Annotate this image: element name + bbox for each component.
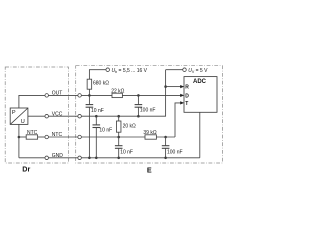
sensor block Dr dash-dot border	[5, 67, 68, 163]
wire VCC gap	[49, 115, 78, 117]
wire VCC from transducer	[28, 115, 45, 117]
capacitor 10 nF C1	[88, 95, 90, 104]
node NTC junction	[18, 136, 21, 139]
capacitor 10 nF C2	[95, 115, 98, 118]
resistor NTC	[26, 135, 37, 139]
svg-text:GND: GND	[52, 153, 64, 159]
node Ub supply terminal	[89, 70, 106, 80]
wire transducer bottom down to GND row	[18, 124, 20, 157]
svg-text:100 nF: 100 nF	[140, 108, 156, 114]
svg-text:39 kΩ: 39 kΩ	[143, 130, 156, 136]
wire GND gap	[49, 157, 78, 159]
wire 39k to T corner	[156, 136, 175, 138]
svg-text:10 nF: 10 nF	[91, 108, 104, 114]
svg-text:R: R	[185, 85, 189, 91]
svg-text:10 nF: 10 nF	[99, 127, 112, 133]
resistor 20 k	[117, 115, 120, 118]
wire OUT from transducer top	[19, 95, 45, 108]
node UV 5V terminal	[166, 69, 183, 71]
wire NTC gap	[49, 136, 78, 138]
capacitor 100 nF C5	[164, 136, 167, 139]
svg-text:680 kΩ: 680 kΩ	[93, 81, 109, 87]
arrowheads into ADC pins	[180, 85, 184, 105]
node NTC terminal E	[78, 135, 82, 139]
svg-text:20 kΩ: 20 kΩ	[123, 124, 136, 130]
svg-text:100 nF: 100 nF	[167, 150, 183, 156]
wire ADC ground	[199, 112, 201, 158]
wire OUT gap	[49, 94, 78, 96]
transducer P/U box	[10, 108, 28, 124]
electronics block E dash-dot border	[76, 66, 223, 163]
wire D line to ADC	[122, 94, 181, 96]
node OUT terminal Dr	[45, 94, 49, 98]
wire GND row Dr	[19, 157, 45, 159]
svg-text:D: D	[185, 93, 189, 99]
node NTC terminal Dr	[45, 135, 49, 139]
resistor 39 k	[145, 135, 156, 139]
capacitor 10 nF C3	[118, 137, 120, 146]
capacitor 100 nF C4	[137, 94, 140, 97]
node junction 680k/OUT	[88, 94, 91, 97]
svg-text:E: E	[147, 165, 152, 174]
svg-text:Ub = 5,5 ... 16 V: Ub = 5,5 ... 16 V	[112, 68, 148, 74]
wire NTC row to 39k	[81, 136, 145, 138]
node junction R tap	[164, 85, 167, 88]
svg-text:P: P	[12, 110, 16, 116]
svg-text:NTC: NTC	[52, 132, 63, 138]
wire R to ADC	[166, 86, 181, 88]
svg-text:U: U	[21, 119, 25, 125]
svg-text:T: T	[185, 101, 188, 107]
svg-text:OUT: OUT	[52, 91, 63, 97]
resistor 680 k	[87, 79, 92, 89]
svg-text:NTC: NTC	[27, 130, 38, 136]
svg-text:VCC: VCC	[52, 111, 63, 117]
wire NTC to terminal	[38, 136, 45, 138]
svg-text:ADC: ADC	[193, 79, 207, 85]
svg-text:10 nF: 10 nF	[120, 149, 133, 155]
node OUT terminal E	[78, 94, 82, 98]
node VCC terminal Dr	[45, 114, 49, 118]
ADC box	[184, 77, 217, 113]
wire to NTC resistor	[19, 136, 26, 138]
node GND terminal Dr	[45, 156, 49, 160]
wire T vertical to ADC	[175, 103, 181, 137]
resistor 22 k	[112, 93, 122, 97]
wire OUT row to 22k	[81, 94, 112, 96]
wire GND row E	[81, 157, 199, 159]
node GND terminal E	[78, 156, 82, 160]
wire VCC row to corner up	[81, 70, 165, 117]
svg-text:22 kΩ: 22 kΩ	[111, 88, 124, 94]
node VCC terminal E	[78, 114, 82, 118]
svg-text:UV = 5 V: UV = 5 V	[188, 68, 208, 74]
svg-text:Dr: Dr	[22, 165, 30, 174]
